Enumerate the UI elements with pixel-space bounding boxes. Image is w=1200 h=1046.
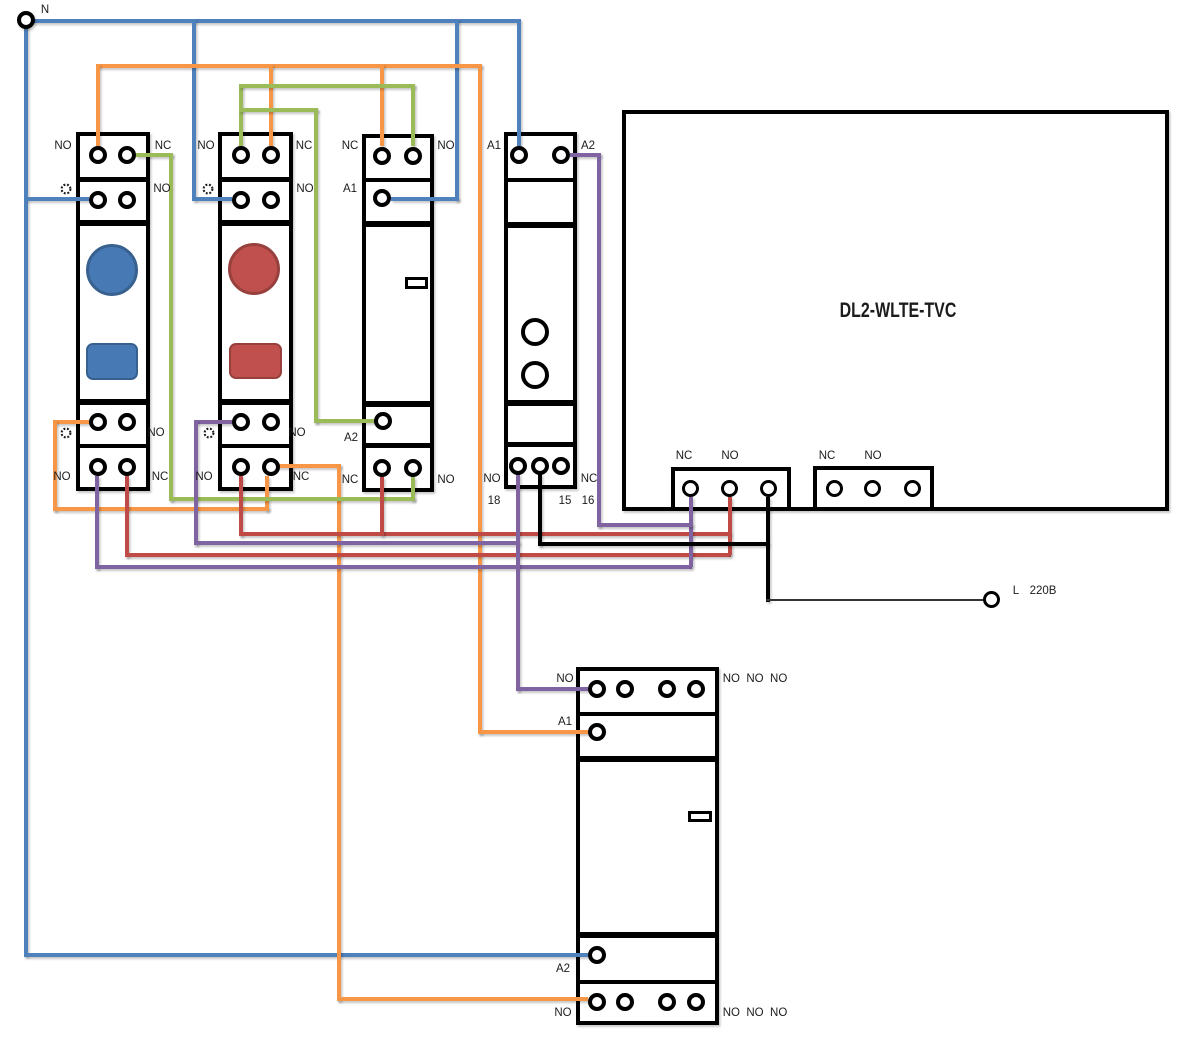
wire orange from S2 row4 NC to the right <box>276 464 341 468</box>
wire red bottom bus to TB1 NO <box>125 553 732 557</box>
wire blue drop to K2 A1 <box>517 19 521 146</box>
S2 red button lens <box>228 243 280 295</box>
S2 terminals row2 <box>232 191 250 209</box>
wire blue drop to S2 <box>192 19 196 201</box>
K1 terminals row1 <box>373 147 391 165</box>
controller box DL2-WLTE-TVC <box>622 110 1169 511</box>
wire purple drop from S1 row4 NO <box>95 476 99 569</box>
wire purple long drop from K2 A2 <box>597 153 601 527</box>
wire green into K1 A2 terminal <box>314 419 375 423</box>
K1 indicator window <box>405 277 428 289</box>
wire green riser into K1 row4 NO <box>411 477 415 501</box>
node L 220B terminal circle <box>983 591 1000 608</box>
wire purple run to TB1 NC riser <box>597 523 693 527</box>
wire green drop to K1 A2 level <box>314 108 318 423</box>
push-button module S1 (blue) body <box>76 132 150 491</box>
wire red drop from S2 row4 NO <box>239 476 243 536</box>
wire green riser from S2 NO <box>239 84 243 146</box>
wire purple drop left of S2 <box>194 420 198 545</box>
wire black riser at TB1 third terminal <box>766 497 770 602</box>
node N terminal circle <box>17 11 35 29</box>
node N label <box>41 4 49 16</box>
K3 top terminals NO row <box>588 680 606 698</box>
wire orange drop to S1 NO <box>96 64 100 146</box>
wire red drop from S1 row4 NC <box>125 476 129 557</box>
DL2 box title <box>840 299 957 323</box>
K2 labels <box>487 140 501 152</box>
K2 bottom terminals 18/15/16 <box>509 457 527 475</box>
contactor K3 body (bottom) <box>576 667 719 1026</box>
wire blue N left vertical <box>24 19 28 956</box>
wire orange drop to S2 NC <box>269 64 273 146</box>
K1 terminal A2 <box>374 412 392 430</box>
wire blue into S2 lamp terminal <box>194 197 232 201</box>
S1 labels <box>54 140 71 152</box>
wire red mid bus to TB1 NO <box>239 532 732 536</box>
wire purple bottom bus to TB1 NC <box>95 565 693 569</box>
wire red drop from K1 row4 NC <box>380 477 384 536</box>
wire orange into K3 A1 terminal <box>478 730 588 734</box>
TB1 terminals <box>682 480 699 497</box>
K1 terminals row4 <box>373 459 391 477</box>
timer relay module K2 body <box>504 132 577 489</box>
wire green bottom run to K1 row4 NO <box>169 497 415 501</box>
K3 terminal A1 <box>588 723 606 741</box>
wire purple from S2 lamp row3 <box>194 420 232 424</box>
wire orange long drop to K3 A1 <box>478 64 482 734</box>
S2 red button pad <box>229 343 282 379</box>
K2 indicator circle lower <box>521 361 549 389</box>
S1 lamp icon row2 <box>59 182 73 196</box>
K3 terminal A2 <box>588 946 606 964</box>
K2 terminal A2 <box>552 146 570 164</box>
wire blue into K1 A1 terminal <box>391 197 459 201</box>
K3 labels <box>556 673 573 685</box>
wire black thin run to L 220B <box>766 599 984 602</box>
wire purple from K2 A2 <box>570 153 601 157</box>
S2 terminals row1 <box>232 146 250 164</box>
wire orange drop to K1 NC <box>380 64 384 146</box>
wire green long drop from S1 NC <box>169 153 173 501</box>
S1 terminals row4 <box>89 458 107 476</box>
TB2 terminals <box>826 480 843 497</box>
wire blue bottom run to K3 A2 <box>24 953 588 957</box>
wire orange into K3 bottom NO terminal <box>337 997 588 1001</box>
wire orange horizontal to S2 NC row4 <box>53 507 269 511</box>
S1 terminals row1 <box>89 146 107 164</box>
S1 lamp icon row3 <box>59 426 73 440</box>
wire orange top bus <box>96 64 482 68</box>
wire blue into S1 lamp terminal <box>26 197 89 201</box>
S1 blue button pad <box>86 343 138 380</box>
wire purple into K3 top NO terminal <box>516 687 588 691</box>
wire purple riser at TB1 NC <box>689 497 693 567</box>
wire purple run to K2 pin18 riser <box>194 541 520 545</box>
K1 labels <box>342 140 359 152</box>
K3 indicator window <box>688 811 711 823</box>
wire orange left vertical <box>53 420 57 511</box>
wire red riser at TB1 NO <box>728 497 732 555</box>
S2 terminals row3 <box>232 413 250 431</box>
wire orange from S1 lamp row3 <box>53 420 89 424</box>
wire black drop from K2 pin15 <box>538 474 542 546</box>
wire green from S1 NC <box>136 153 173 157</box>
relay module K1 body <box>362 134 434 492</box>
K3 bottom terminals NO row <box>588 993 606 1011</box>
terminal block TB2 (NC/NO) of DL2 <box>813 466 934 511</box>
K2 indicator circle upper <box>521 318 549 346</box>
S2 lamp icon row2 <box>201 182 215 196</box>
TB2 labels <box>819 450 836 462</box>
S1 terminals row2 <box>89 191 107 209</box>
wire orange riser into S2 row4 NC <box>265 476 269 511</box>
TB1 labels <box>676 450 693 462</box>
wire black run to TB1 third terminal <box>538 542 770 546</box>
K2 terminal A1 <box>510 146 528 164</box>
terminal block TB1 (NC/NO) of DL2 <box>671 467 791 511</box>
S2 lamp icon row3 <box>202 426 216 440</box>
node L 220B label <box>1013 585 1019 597</box>
wire green drop to K1 NO <box>411 84 415 146</box>
wire blue drop to K1 A1 <box>455 19 459 201</box>
wire orange long drop to K3 bottom NO <box>337 464 341 1001</box>
S1 terminals row3 <box>89 413 107 431</box>
push-button module S2 (red) body <box>218 132 293 491</box>
wire purple drop from K2 pin18 to K3 <box>516 474 520 691</box>
wire green branch to K1 A2 <box>239 108 318 112</box>
K1 terminal A1 <box>373 189 391 207</box>
S2 labels <box>197 140 214 152</box>
wire blue N bus horizontal <box>33 19 519 23</box>
S1 blue button lens <box>86 244 138 296</box>
wire green bus S2-NO to K1-NO <box>239 84 415 88</box>
S2 terminals row4 <box>232 458 250 476</box>
